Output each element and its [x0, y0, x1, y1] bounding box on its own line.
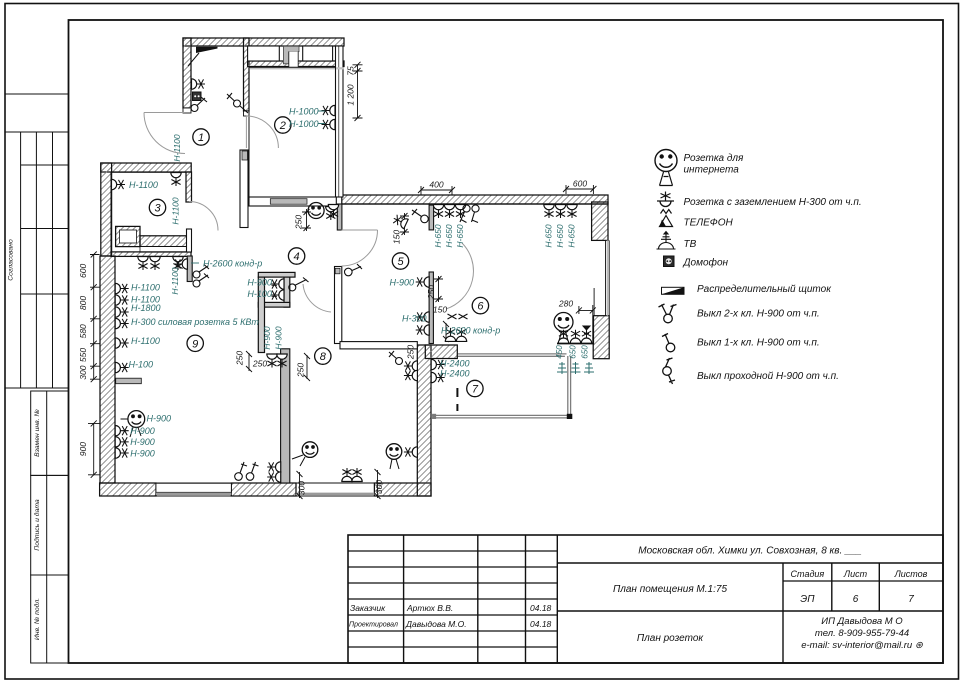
svg-text:650: 650 — [569, 345, 578, 359]
niche box window B — [303, 46, 333, 61]
dim left 900 — [93, 423, 95, 474]
svg-text:2: 2 — [279, 120, 286, 132]
svg-text:Розетка для: Розетка для — [684, 153, 745, 164]
door room5 from corridor — [342, 230, 378, 266]
svg-text:Н-900: Н-900 — [147, 414, 172, 424]
vent shaft gray — [283, 46, 299, 64]
svg-text:150: 150 — [392, 230, 402, 244]
wall room5/6 divider upper jamb (gray) — [429, 205, 434, 230]
svg-text:Лист: Лист — [843, 569, 868, 579]
wall room4 C-shape top bar — [258, 272, 295, 277]
svg-text:Н-300 силовая розетка 5 КВт: Н-300 силовая розетка 5 КВт — [131, 317, 259, 327]
dim 250 room8 right — [304, 353, 310, 381]
wall right upper block — [592, 202, 608, 240]
wall room3 right — [186, 172, 192, 202]
svg-text:Выкл проходной Н-900 от ч.: Выкл проходной Н-900 от ч.п. — [697, 371, 839, 382]
dim 150 room6 bottom — [443, 321, 449, 342]
svg-text:Распределительный щиток: Распределительный щиток — [697, 284, 832, 295]
wall room8/9 gray lower — [281, 349, 290, 483]
svg-text:450: 450 — [555, 345, 564, 359]
svg-text:Выкл 2-х кл. Н-900 от ч.п.: Выкл 2-х кл. Н-900 от ч.п. — [697, 309, 820, 320]
svg-text:Н-2400: Н-2400 — [440, 359, 470, 369]
svg-text:9: 9 — [192, 338, 198, 350]
svg-text:250: 250 — [252, 359, 267, 369]
wall room5/6 divider lower — [429, 272, 433, 344]
svg-text:600: 600 — [78, 264, 88, 278]
svg-text:План розеток: План розеток — [637, 633, 705, 644]
svg-text:Н-900: Н-900 — [262, 326, 272, 349]
svg-text:Согласовано: Согласовано — [8, 239, 15, 281]
dim left column 600/800/580/550/300 — [93, 255, 95, 380]
door room8 from corridor — [303, 284, 331, 312]
svg-text:5: 5 — [397, 256, 404, 268]
wall room4/5 divider — [335, 267, 342, 344]
dim 1200/75 vertical right of room2 — [357, 65, 359, 118]
wall room2 left lower — [240, 150, 248, 228]
dim 250 room2 bottom — [302, 209, 311, 231]
room2 interior — [249, 67, 336, 198]
svg-text:Н-2600 конд-р: Н-2600 конд-р — [441, 326, 500, 336]
svg-text:300: 300 — [374, 480, 384, 494]
svg-text:ТЕЛЕФОН: ТЕЛЕФОН — [684, 218, 734, 229]
svg-text:550: 550 — [78, 348, 88, 362]
svg-text:Н-1100: Н-1100 — [171, 197, 181, 225]
svg-text:3: 3 — [154, 203, 161, 215]
svg-text:150: 150 — [433, 305, 447, 315]
smiley room8 bottom — [302, 442, 318, 458]
wall big vertical center-right — [417, 345, 431, 496]
left gost strip: top empty box — [5, 94, 69, 132]
dim 400 top — [421, 186, 452, 195]
svg-text:580: 580 — [78, 324, 88, 338]
wall bottom horiz room8/6 — [340, 342, 417, 349]
dim 300 bottom gaps ticks — [297, 471, 303, 499]
svg-text:Н-1800: Н-1800 — [131, 303, 161, 313]
smiley room6 right — [554, 313, 573, 332]
svg-text:Взамен инв. №: Взамен инв. № — [34, 409, 41, 457]
smiley room2 bottom — [308, 203, 324, 219]
wall corridor/room5 jamb (gray) — [337, 204, 342, 230]
svg-text:800: 800 — [78, 296, 88, 310]
svg-text:250: 250 — [235, 351, 245, 366]
svg-text:Н-1100: Н-1100 — [131, 283, 160, 293]
legend internet socket symbol — [655, 150, 677, 186]
wall divider rooms1/2 — [244, 38, 250, 111]
svg-text:75: 75 — [346, 66, 356, 76]
room3 interior top line — [111, 172, 186, 252]
sill lines bottom gaps — [156, 493, 374, 495]
niche box window A — [248, 46, 280, 61]
svg-text:Н-650: Н-650 — [433, 224, 443, 247]
room1 interior lines — [191, 46, 244, 111]
svg-text:Подпись и дата: Подпись и дата — [33, 499, 41, 551]
svg-text:Розетка с заземлением Н-300: Розетка с заземлением Н-300 от ч.п. — [684, 197, 862, 208]
door room1 entry — [144, 113, 185, 154]
wall room4 C-shape right leg — [284, 277, 290, 307]
svg-text:04.18: 04.18 — [530, 619, 552, 629]
wall room4 C-shape bottom bar — [258, 302, 290, 307]
wall band below niches room2 — [248, 61, 344, 67]
dim 250 room8 left — [246, 351, 252, 372]
svg-text:интернета: интернета — [684, 165, 740, 176]
svg-text:Н-650: Н-650 — [567, 224, 577, 247]
svg-text:Н-1100: Н-1100 — [131, 336, 160, 346]
wall room8/9 upper left leg — [258, 277, 264, 352]
svg-text:ИП Давыдова М О: ИП Давыдова М О — [821, 616, 903, 627]
svg-text:6: 6 — [853, 594, 859, 605]
svg-text:Стадия: Стадия — [791, 569, 825, 579]
right wall window thin lines — [606, 240, 610, 315]
svg-text:Давыдова М.О.: Давыдова М.О. — [405, 619, 467, 629]
svg-text:04.18: 04.18 — [530, 603, 552, 613]
svg-text:Н-1100: Н-1100 — [172, 134, 182, 162]
wall room3 right below door — [187, 229, 192, 252]
svg-text:ТВ: ТВ — [684, 239, 697, 250]
dim 280 right — [579, 305, 593, 316]
svg-text:Н-900: Н-900 — [130, 437, 155, 447]
smiley room9 — [128, 411, 145, 428]
door room3 — [189, 202, 218, 231]
dim 600 top right — [566, 185, 593, 194]
svg-text:250: 250 — [295, 363, 305, 378]
left gost strip: soglasovano table — [5, 132, 69, 388]
gray shelf room9 — [116, 378, 142, 384]
legend domofon symbol — [664, 256, 675, 267]
long wall bottom edge emphasize — [342, 203, 608, 205]
floor sockets at bottom wall gap — [342, 468, 352, 482]
svg-text:e-mail: sv-interior@mail.ru ⊛: e-mail: sv-interior@mail.ru ⊛ — [801, 640, 923, 651]
legend distribution board symbol — [662, 287, 685, 294]
svg-text:Н-100: Н-100 — [247, 289, 272, 299]
door room2 — [246, 116, 278, 148]
svg-text:Н-300: Н-300 — [402, 314, 427, 324]
svg-text:ЭП: ЭП — [800, 594, 815, 605]
svg-text:8: 8 — [320, 351, 327, 363]
wall bottom segment C — [374, 483, 431, 496]
balcony L-corner outline at right — [557, 316, 593, 344]
legend grounded socket symbol — [657, 192, 674, 207]
wall room3 duct block — [116, 226, 140, 246]
left gost strip: lower boxes — [31, 391, 69, 475]
wall room2 bottom — [249, 197, 336, 206]
wall right lower block — [593, 316, 609, 359]
svg-text:Н-1000: Н-1000 — [289, 119, 319, 129]
svg-text:400: 400 — [429, 180, 443, 190]
dashed mark balcony — [456, 388, 458, 411]
wall bottom segment A — [100, 483, 156, 496]
threshold bottom gap A — [156, 483, 231, 492]
dim 250 room5 right — [434, 276, 443, 302]
legend switch 2-key — [659, 304, 677, 323]
svg-text:Н-2400: Н-2400 — [440, 369, 470, 379]
svg-text:Н-900: Н-900 — [130, 448, 155, 458]
svg-text:Инв. № подл.: Инв. № подл. — [33, 598, 41, 640]
svg-text:Н-100: Н-100 — [129, 360, 154, 370]
svg-text:Н-900: Н-900 — [130, 426, 155, 436]
legend telephone symbol — [660, 210, 673, 227]
wall room3 top — [101, 163, 191, 172]
svg-text:300: 300 — [297, 481, 307, 495]
switches below room3 — [193, 271, 200, 278]
svg-text:Выкл 1-х кл. Н-900 от ч.п.: Выкл 1-х кл. Н-900 от ч.п. — [697, 338, 820, 349]
svg-text:900: 900 — [78, 442, 88, 456]
svg-text:Н-900: Н-900 — [274, 326, 284, 349]
svg-text:300: 300 — [78, 365, 88, 379]
wall long top rooms5-6 — [342, 195, 608, 204]
wall room3 lower band — [140, 236, 187, 247]
svg-text:тел. 8-909-955-79-44: тел. 8-909-955-79-44 — [815, 628, 909, 639]
door room6 arc — [446, 243, 473, 309]
svg-text:280: 280 — [558, 299, 573, 309]
smiley room7 top (near balcony) — [386, 444, 402, 460]
legend switch 1-key — [662, 334, 675, 352]
svg-text:Н-900: Н-900 — [390, 278, 415, 288]
legend TV symbol — [657, 231, 676, 249]
svg-text:Домофон: Домофон — [683, 257, 729, 269]
svg-text:4: 4 — [294, 251, 300, 263]
bottom band outline — [111, 483, 431, 496]
svg-text:Н-1000: Н-1000 — [289, 107, 319, 117]
dim 150 room5 — [400, 213, 409, 235]
svg-text:7: 7 — [908, 594, 914, 605]
wall top rooms1-2 — [183, 38, 344, 46]
svg-text:Н-650: Н-650 — [444, 224, 454, 247]
svg-text:1: 1 — [198, 132, 204, 144]
wall left main — [101, 163, 112, 256]
legend switch pass-through — [663, 358, 675, 384]
svg-text:Н-1100: Н-1100 — [129, 180, 158, 190]
svg-text:Н-1100: Н-1100 — [170, 267, 180, 295]
svg-text:250: 250 — [406, 345, 416, 360]
svg-text:Заказчик: Заказчик — [350, 603, 386, 613]
svg-text:600: 600 — [573, 179, 587, 189]
svg-text:Проектировал: Проектировал — [349, 622, 398, 629]
sill line under niches — [248, 67, 344, 69]
svg-text:Н-2600 конд-р: Н-2600 конд-р — [203, 259, 262, 269]
svg-text:Листов: Листов — [894, 569, 928, 579]
wall room3 bottom — [111, 252, 191, 257]
wall stub right of big vertical — [425, 345, 457, 359]
wall room2 right (thin double) — [336, 46, 344, 197]
svg-text:6: 6 — [477, 301, 484, 313]
svg-text:Артюх В.В.: Артюх В.В. — [406, 603, 453, 613]
svg-text:Н-650: Н-650 — [555, 224, 565, 247]
svg-text:7: 7 — [472, 384, 479, 396]
svg-text:650: 650 — [581, 345, 590, 359]
socket near room7 smiley on big wall — [404, 447, 418, 457]
svg-text:1 200: 1 200 — [346, 84, 356, 106]
svg-text:Н-650: Н-650 — [455, 224, 465, 247]
wall stub below room3 (gray) — [187, 256, 192, 282]
svg-text:Н-650: Н-650 — [544, 224, 554, 247]
wall bottom segment B — [231, 483, 296, 496]
svg-text:План помещения М.1:75: План помещения М.1:75 — [613, 584, 727, 595]
svg-text:250: 250 — [294, 215, 304, 230]
svg-text:Московская обл. Химки ул. Совх: Московская обл. Химки ул. Совхозная, 8 к… — [638, 545, 861, 557]
wall room1 left — [183, 38, 191, 108]
svg-text:Н-900: Н-900 — [247, 278, 272, 288]
